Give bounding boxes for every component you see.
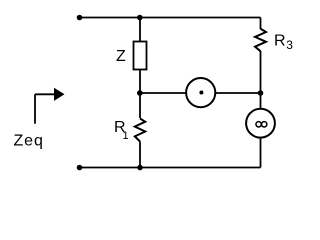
- wire middle horizontal right segment: [216, 92, 261, 94]
- node middle junction: [137, 90, 143, 96]
- node bottom junction: [137, 165, 143, 171]
- wire R3 to right junction: [260, 51, 262, 93]
- svg-text:Z: Z: [116, 48, 126, 65]
- infinity symbol right loop: [262, 122, 267, 127]
- wire bottom horizontal: [80, 167, 261, 169]
- svg-text:Zeq: Zeq: [14, 132, 44, 149]
- svg-text:1: 1: [123, 130, 129, 142]
- wire R1 to bottom junction: [139, 142, 141, 168]
- node bottom-left: [77, 165, 83, 171]
- wire infinity source to bottom corner: [260, 138, 262, 168]
- impedance Z box: [134, 42, 147, 70]
- wire middle horizontal left segment: [140, 92, 186, 94]
- source with dot (circle): [186, 78, 215, 107]
- dot inside source: [199, 91, 203, 95]
- Zeq arrow horizontal: [35, 93, 55, 95]
- node top-left: [77, 15, 83, 21]
- resistor R1 zigzag: [135, 119, 145, 142]
- node right junction: [258, 90, 264, 96]
- wire right junction to infinity source: [260, 93, 262, 109]
- Zeq arrowhead: [54, 88, 65, 101]
- infinity source circle: [246, 109, 275, 138]
- Zeq arrow vertical: [34, 94, 36, 123]
- wire from Z box to middle junction: [139, 70, 141, 94]
- wire middle junction to R1: [139, 93, 141, 118]
- wire top horizontal: [80, 17, 261, 19]
- wire from top junction to Z box: [139, 18, 141, 43]
- infinity symbol left loop: [256, 122, 261, 127]
- svg-text:3: 3: [286, 38, 293, 52]
- node top-center junction: [137, 15, 143, 21]
- resistor R3 zigzag: [255, 29, 266, 51]
- svg-text:R: R: [274, 33, 286, 50]
- wire right vertical top (corner to R3): [260, 18, 262, 30]
